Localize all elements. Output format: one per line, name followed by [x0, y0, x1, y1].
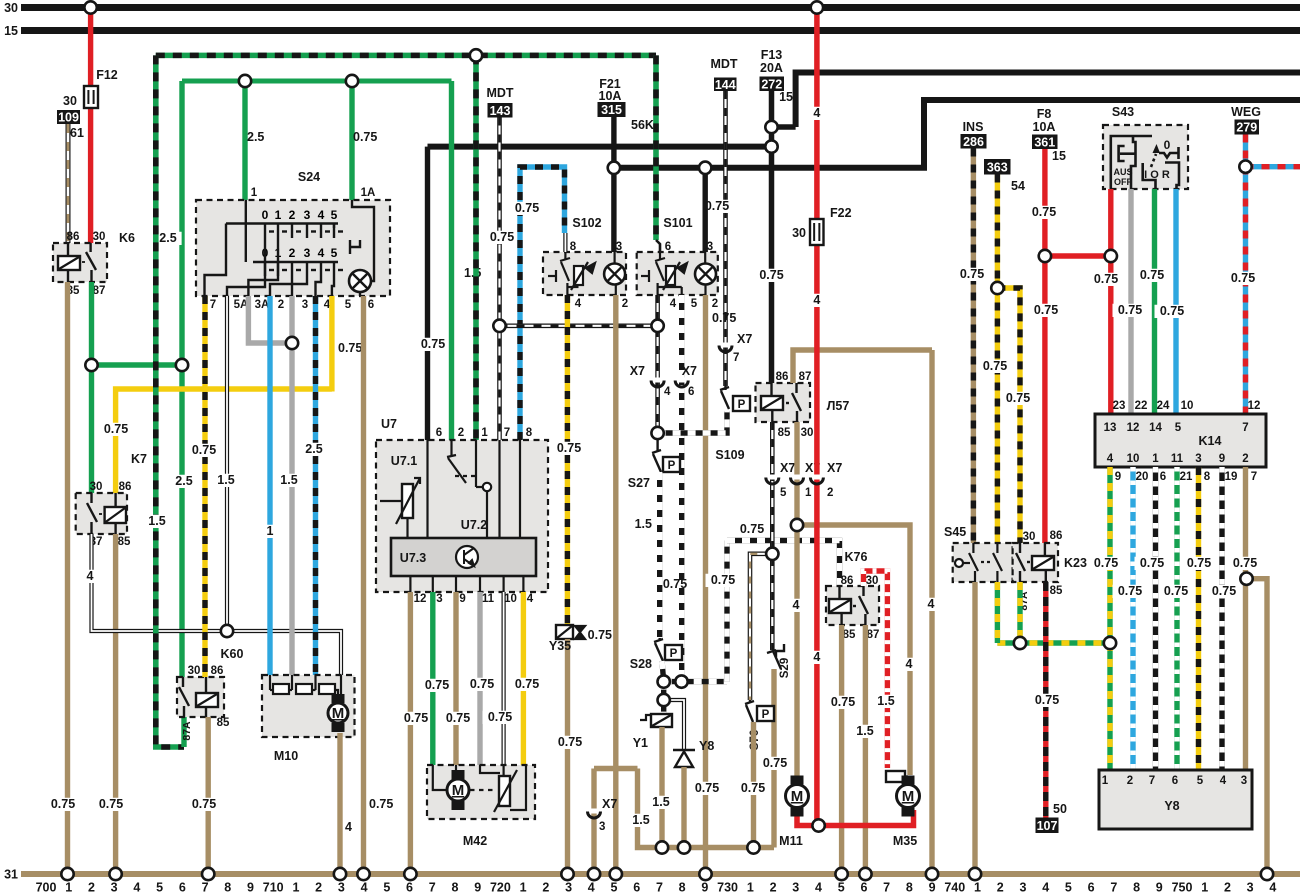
label 0.75 K23-85: [1030, 693, 1065, 707]
wire blue S43 to K14-5: [1173, 189, 1178, 414]
svg-text:X7: X7: [682, 364, 697, 378]
svg-text:1: 1: [65, 881, 72, 895]
switch S102 box: [543, 252, 626, 295]
wire brown K14-2 to Y8-3: [1243, 467, 1248, 770]
label 2.5 S24-4: [300, 442, 327, 456]
svg-text:3: 3: [1019, 881, 1026, 895]
label 1.5 rail: [627, 813, 654, 827]
svg-text:Y8: Y8: [1164, 799, 1179, 813]
label 0.75 Y35 gnd: [553, 735, 588, 749]
svg-text:7: 7: [1242, 422, 1248, 434]
M35 inline resistor: [886, 771, 905, 782]
wire green/yellow K14-4 to Y8-1: [1107, 467, 1112, 770]
svg-text:0.75: 0.75: [369, 797, 393, 811]
label 0.75 MDT143: [485, 230, 520, 244]
M42 resistor: [494, 770, 517, 812]
svg-text:1.5: 1.5: [464, 266, 481, 280]
svg-text:2: 2: [1127, 775, 1133, 787]
svg-text:6: 6: [179, 881, 186, 895]
svg-text:0.75: 0.75: [1233, 556, 1257, 570]
label 0.75 U7-3: [420, 678, 455, 692]
svg-text:87A: 87A: [181, 721, 193, 741]
svg-text:4: 4: [1107, 453, 1114, 465]
valve Y35: [556, 625, 585, 639]
wire black/white K14-9 to Y8-4: [1219, 467, 1224, 770]
label 0.75 MDT144: [700, 199, 735, 213]
junction bus31 x410: [404, 868, 416, 880]
fuse tag 361: [1032, 135, 1058, 150]
svg-text:12: 12: [414, 593, 427, 605]
svg-text:0.75: 0.75: [338, 341, 362, 355]
S101-6 stub: [656, 240, 660, 252]
svg-text:8: 8: [679, 881, 686, 895]
svg-text:1: 1: [1102, 775, 1109, 787]
label 4 x932: [925, 597, 937, 611]
wire red/black K23-85 to 107: [1043, 582, 1048, 818]
svg-text:4: 4: [813, 106, 820, 120]
svg-text:7: 7: [1149, 775, 1155, 787]
junction gray y343: [286, 337, 298, 349]
svg-text:0.75: 0.75: [1212, 584, 1236, 598]
svg-text:0.75: 0.75: [99, 797, 123, 811]
svg-text:0.75: 0.75: [705, 199, 729, 213]
junction red F8 y256: [1039, 250, 1051, 262]
svg-text:X7: X7: [602, 797, 617, 811]
svg-text:2: 2: [458, 427, 464, 439]
junction rail S76: [747, 841, 759, 853]
svg-text:2: 2: [289, 246, 296, 260]
label 0.75 S43 gray: [1113, 303, 1148, 317]
svg-text:5: 5: [345, 299, 352, 311]
M10 motor: [328, 694, 348, 732]
K6 switch: [82, 243, 96, 282]
svg-text:286: 286: [963, 135, 984, 149]
junction S101-3 y167: [699, 162, 711, 174]
wire black S101-3 feed: [703, 168, 708, 252]
svg-text:2: 2: [622, 298, 628, 310]
svg-text:9: 9: [459, 593, 465, 605]
S27 P box: [663, 457, 680, 472]
svg-text:5: 5: [838, 881, 845, 895]
svg-text:2: 2: [88, 881, 95, 895]
label 0.75 K14-3: [1182, 556, 1217, 570]
connector X7-2: [810, 475, 823, 485]
bus 31 scale numbers: [36, 881, 1277, 895]
switch unit S24 box: [196, 200, 390, 296]
junction 363 y288: [991, 282, 1003, 294]
wire brown K7-85 to bus31: [113, 534, 118, 874]
net tag 143: [488, 103, 513, 118]
svg-text:S43: S43: [1112, 105, 1134, 119]
svg-text:143: 143: [490, 104, 511, 118]
svg-text:4: 4: [906, 657, 913, 671]
wire brown X7-3 jog: [594, 766, 638, 771]
svg-text:7: 7: [1110, 881, 1117, 895]
wire red M11-M35 link: [797, 810, 914, 826]
U7.1 thermistor: [380, 478, 420, 538]
junction bus31 x594: [588, 868, 600, 880]
svg-text:M11: M11: [779, 834, 803, 848]
S24 1A contact and lamp feed: [350, 200, 374, 270]
svg-text:1: 1: [1152, 453, 1159, 465]
label 0.75 K6-85: [46, 797, 81, 811]
svg-text:1: 1: [974, 881, 981, 895]
svg-text:700: 700: [36, 881, 57, 895]
svg-text:3: 3: [1241, 775, 1247, 787]
wire brown S102-2 down: [613, 295, 618, 874]
svg-text:I O R: I O R: [1144, 169, 1170, 181]
junction bus31 x208: [202, 868, 214, 880]
wire white Y8 branch: [664, 700, 684, 750]
wire green/black stripe trunk x155: [156, 55, 184, 747]
wire white/black riser x727: [724, 541, 729, 682]
label 4 red mid: [811, 293, 823, 307]
junction green K6-87 y365: [85, 359, 97, 371]
svg-text:2: 2: [1242, 453, 1248, 465]
junction bus31 x841: [835, 868, 847, 880]
svg-text:86: 86: [776, 371, 789, 383]
svg-text:11: 11: [482, 593, 495, 605]
junction green trunk y365: [176, 359, 188, 371]
label 1.5 S24-3: [275, 473, 302, 487]
svg-text:3: 3: [304, 208, 311, 222]
black bus y146: [428, 144, 772, 150]
svg-text:30: 30: [4, 1, 18, 15]
label 0.75 K14-9: [1207, 584, 1242, 598]
svg-text:4: 4: [588, 881, 595, 895]
label 0.75 U7-12: [399, 711, 434, 725]
svg-text:9: 9: [247, 881, 254, 895]
wire brown/white 109 to K6-86: [66, 124, 71, 243]
svg-text:87: 87: [93, 285, 106, 297]
svg-text:6: 6: [406, 881, 413, 895]
wire green branch y365: [92, 362, 183, 367]
wire brown M10 to bus31: [337, 733, 342, 874]
svg-text:5: 5: [156, 881, 163, 895]
svg-text:2: 2: [278, 299, 284, 311]
svg-text:0.75: 0.75: [1187, 556, 1211, 570]
L57 switch: [786, 383, 801, 422]
svg-text:1: 1: [267, 524, 274, 538]
svg-text:0.75: 0.75: [831, 695, 855, 709]
svg-text:6: 6: [1172, 775, 1178, 787]
svg-text:K14: K14: [1199, 434, 1222, 448]
svg-text:INS: INS: [963, 120, 984, 134]
net tag 107: [1036, 818, 1059, 834]
wire red F8 to K23-86: [1042, 149, 1047, 543]
svg-text:0.75: 0.75: [740, 522, 764, 536]
svg-text:2: 2: [315, 881, 322, 895]
svg-text:0: 0: [1164, 138, 1171, 152]
svg-text:363: 363: [987, 160, 1008, 174]
junction green bus S24-1: [239, 75, 251, 87]
label 0.75 S43 blue: [1155, 304, 1190, 318]
svg-text:M: M: [902, 788, 915, 805]
svg-text:6: 6: [436, 427, 442, 439]
svg-text:24: 24: [1157, 400, 1170, 412]
svg-text:2: 2: [542, 881, 549, 895]
svg-text:730: 730: [717, 881, 738, 895]
label 0.75 K23-30 wire: [1001, 391, 1036, 405]
svg-text:7: 7: [656, 881, 663, 895]
wire brown S76 ground: [751, 722, 756, 848]
svg-text:Y8: Y8: [699, 739, 714, 753]
svg-text:U7.2: U7.2: [461, 518, 487, 532]
wire brown S24-6 to bus31: [361, 296, 366, 874]
wire brown/white branch y553: [750, 554, 772, 700]
svg-text:8: 8: [451, 881, 458, 895]
control unit U7 box: [376, 440, 548, 592]
svg-text:12: 12: [1248, 400, 1261, 412]
K7 coil: [114, 493, 116, 507]
wire green K6-87 down: [89, 282, 94, 493]
svg-text:315: 315: [601, 103, 622, 117]
svg-text:K76: K76: [845, 550, 868, 564]
svg-text:4: 4: [664, 386, 671, 398]
svg-text:1: 1: [481, 427, 488, 439]
label 0.75 K60-85: [187, 797, 222, 811]
svg-text:4: 4: [361, 881, 368, 895]
control unit K14 box: [1095, 414, 1266, 467]
connector X7-6: [675, 378, 688, 388]
svg-text:85: 85: [1050, 585, 1063, 597]
label 0.75 yellow K7: [99, 422, 134, 436]
svg-text:15: 15: [4, 24, 18, 38]
label 0.75 K7-85: [94, 797, 129, 811]
svg-text:4: 4: [133, 881, 140, 895]
junction S101-4 y326: [651, 320, 663, 332]
wire yellow S24-5 corner: [329, 296, 334, 392]
bus 30: [21, 4, 1300, 11]
S102 lamp: [604, 264, 625, 285]
svg-text:2: 2: [827, 487, 833, 499]
K60 coil: [205, 677, 207, 693]
svg-text:8: 8: [526, 427, 533, 439]
junction L57-30 y525: [791, 519, 803, 531]
M42 motor: [447, 770, 469, 810]
svg-text:0.75: 0.75: [515, 677, 539, 691]
svg-text:5: 5: [383, 881, 390, 895]
junction bus31 x567: [561, 868, 573, 880]
svg-text:2: 2: [1224, 881, 1231, 895]
label 0.75 S29 gnd: [758, 756, 793, 770]
svg-text:4: 4: [345, 820, 352, 834]
relay L57 box: [756, 383, 811, 422]
svg-text:0.75: 0.75: [1006, 391, 1030, 405]
wire white/black to K76-86: [727, 541, 840, 587]
label 0.75 U7-10: [483, 710, 518, 724]
svg-text:4: 4: [527, 593, 534, 605]
svg-text:P: P: [738, 399, 746, 411]
M10 internal links: [270, 675, 341, 700]
wire gray S43 to K14-12: [1128, 189, 1133, 414]
svg-text:86: 86: [67, 231, 80, 243]
switch S109: [720, 386, 729, 409]
svg-text:U7.3: U7.3: [400, 551, 426, 565]
K76 coil: [838, 586, 840, 599]
S24 row 2 numbers: [262, 246, 338, 260]
svg-text:Y35: Y35: [549, 639, 571, 653]
fuse tag 315: [598, 102, 626, 117]
svg-text:6: 6: [665, 241, 671, 253]
svg-text:0.75: 0.75: [404, 711, 428, 725]
S101 lamp: [695, 264, 716, 285]
svg-text:720: 720: [490, 881, 511, 895]
net tag 144: [714, 78, 737, 92]
svg-text:M10: M10: [274, 749, 298, 763]
svg-text:3: 3: [616, 241, 622, 253]
svg-text:6: 6: [1088, 881, 1095, 895]
svg-text:P: P: [670, 648, 678, 660]
label 0.75 S76 gnd: [736, 781, 771, 795]
svg-text:54: 54: [1011, 179, 1025, 193]
svg-text:3: 3: [304, 246, 311, 260]
svg-text:0.75: 0.75: [488, 710, 512, 724]
motor unit M42 box: [427, 765, 535, 819]
svg-text:9: 9: [1156, 881, 1163, 895]
net tag 286: [961, 134, 987, 149]
K6 coil: [67, 243, 69, 256]
wire green S43 to K14-14: [1152, 189, 1157, 414]
switch S76: [745, 700, 754, 722]
svg-text:3: 3: [338, 881, 345, 895]
svg-text:8: 8: [906, 881, 913, 895]
wire yellow/black 363 to S45: [995, 175, 1000, 544]
svg-text:1: 1: [275, 208, 282, 222]
svg-text:0.75: 0.75: [763, 756, 787, 770]
junction Y1-Y8 y700: [658, 694, 670, 706]
wire red F12 from bus30: [88, 8, 93, 244]
K7 switch: [87, 493, 97, 534]
svg-text:S24: S24: [298, 170, 320, 184]
svg-text:X7: X7: [780, 461, 795, 475]
wire brown S45 ground: [972, 582, 977, 874]
wire red F22 main: [814, 8, 820, 826]
valve Y1: [640, 714, 672, 727]
M10 resistor 3: [319, 684, 335, 694]
svg-text:3: 3: [599, 821, 605, 833]
relay K76 box: [826, 586, 879, 625]
S24 lamp leads: [371, 270, 374, 281]
svg-text:0.75: 0.75: [983, 359, 1007, 373]
svg-text:2: 2: [997, 881, 1004, 895]
switch S27: [652, 439, 661, 472]
svg-text:279: 279: [1236, 121, 1257, 135]
wire green trunk x182: [179, 81, 184, 677]
svg-text:3: 3: [302, 299, 308, 311]
wire brown L57-30 down: [794, 422, 799, 781]
S24 internal pin drops: [227, 238, 334, 296]
svg-text:MDT: MDT: [486, 86, 513, 100]
svg-text:8: 8: [1133, 881, 1140, 895]
svg-text:3: 3: [565, 881, 572, 895]
S43 internals: [1111, 136, 1179, 189]
svg-text:U7: U7: [381, 417, 397, 431]
wire brown Y1 ground: [659, 727, 664, 848]
svg-text:M42: M42: [463, 834, 487, 848]
connector X7-1: [791, 475, 804, 485]
svg-text:9: 9: [929, 881, 936, 895]
label 0.75 F8 wire: [1027, 205, 1062, 219]
wire brown S101-2 to bus31: [703, 295, 708, 874]
wire brown K60-85 to bus31: [205, 717, 210, 874]
label 0.75 S43 red: [1089, 272, 1124, 286]
wire white S24-5A down: [225, 296, 229, 631]
label 0.75 WEG: [1226, 271, 1261, 285]
fuse F22: [810, 219, 824, 245]
wire green/black U7-1 feed: [473, 55, 479, 440]
wire brown branch to M35: [797, 525, 910, 775]
svg-text:M35: M35: [893, 834, 917, 848]
motor unit M10 box: [262, 675, 355, 737]
svg-text:2: 2: [289, 208, 296, 222]
svg-text:9: 9: [1219, 453, 1225, 465]
svg-text:4: 4: [318, 246, 325, 260]
green feed bus: [182, 79, 452, 84]
svg-text:1.5: 1.5: [280, 473, 297, 487]
svg-text:30: 30: [63, 94, 77, 108]
svg-text:6: 6: [633, 881, 640, 895]
wire white/black MDT144 down: [723, 91, 728, 386]
svg-text:0.75: 0.75: [446, 711, 470, 725]
svg-text:6: 6: [688, 386, 694, 398]
switch S28: [654, 638, 663, 661]
svg-text:85: 85: [778, 427, 791, 439]
svg-text:7: 7: [733, 352, 739, 364]
label 0.75 S102-4: [552, 441, 587, 455]
wire green/yellow K23-87A drop: [1017, 582, 1022, 643]
svg-text:1.5: 1.5: [632, 813, 649, 827]
svg-text:5: 5: [1065, 881, 1072, 895]
wire white/black to Y1: [661, 682, 666, 714]
junction bus31 x932: [926, 868, 938, 880]
svg-text:12: 12: [1127, 422, 1140, 434]
label 0.75 K14-11: [1159, 584, 1194, 598]
svg-text:1: 1: [251, 187, 258, 199]
svg-text:0.75: 0.75: [192, 443, 216, 457]
svg-text:20A: 20A: [760, 61, 783, 75]
wire brown S29 ground: [771, 669, 776, 848]
svg-text:3: 3: [1247, 881, 1254, 895]
svg-text:4: 4: [1220, 775, 1227, 787]
svg-text:0.75: 0.75: [588, 628, 612, 642]
svg-text:0.75: 0.75: [741, 781, 765, 795]
M42 internal wiring: [433, 765, 526, 810]
label 4 red low: [811, 650, 823, 664]
wire white/black branch y326: [500, 323, 659, 328]
svg-text:K6: K6: [119, 231, 135, 245]
junction bus31 x865: [859, 868, 871, 880]
wire brown K76-87 ground: [863, 625, 868, 874]
svg-text:7: 7: [210, 299, 216, 311]
wire blue/white K14-10 to Y8-2: [1130, 467, 1135, 770]
svg-text:30: 30: [188, 665, 201, 677]
svg-text:WEG: WEG: [1231, 105, 1261, 119]
label 4 red top: [811, 106, 823, 120]
svg-text:S101: S101: [663, 216, 692, 230]
wire black/white K14-1 to Y8-7: [1153, 467, 1158, 770]
svg-text:0.75: 0.75: [490, 230, 514, 244]
svg-text:M: M: [452, 782, 465, 799]
switch S101 box: [637, 252, 718, 295]
label 0.75 U7-4: [510, 677, 545, 691]
svg-text:K60: K60: [221, 647, 244, 661]
svg-text:85: 85: [118, 536, 131, 548]
svg-text:4: 4: [87, 569, 94, 583]
label 0.75 INS: [955, 267, 990, 281]
wire yellow to K7-86: [116, 389, 332, 493]
wire red link y256: [1045, 253, 1111, 258]
